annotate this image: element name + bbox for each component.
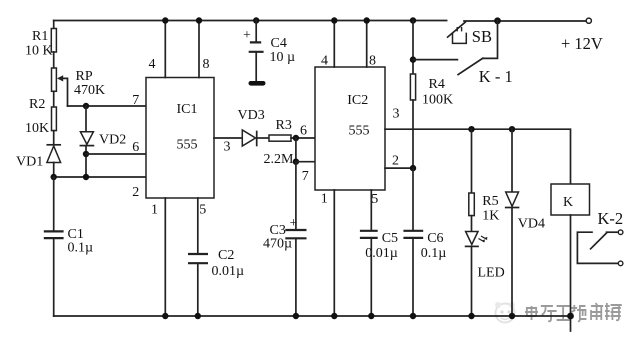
relay contact K-1 bbox=[410, 56, 513, 86]
svg-text:2: 2 bbox=[132, 185, 139, 200]
wire left rail top segment bbox=[53, 21, 55, 29]
wire IC2 pin 7 stub bbox=[296, 161, 315, 163]
wire IC2 pin 1 to ground rail bbox=[331, 190, 337, 319]
LED bbox=[466, 232, 505, 281]
svg-text:10 µ: 10 µ bbox=[270, 50, 296, 65]
svg-text:1K: 1K bbox=[482, 209, 499, 224]
wire pin7 net from RP wiper to IC1 pin 7 bbox=[68, 105, 147, 107]
svg-text:VD1: VD1 bbox=[16, 155, 43, 170]
svg-text:C2: C2 bbox=[218, 248, 234, 263]
svg-text:SB: SB bbox=[472, 27, 492, 46]
svg-text:10K: 10K bbox=[25, 121, 49, 136]
op-amp IC2 555 timer bbox=[300, 54, 400, 208]
wire R4 bottom to pin2 junction bbox=[412, 100, 414, 168]
svg-text:R4: R4 bbox=[429, 77, 445, 92]
pushbutton SB bbox=[448, 22, 492, 46]
svg-text:IC1: IC1 bbox=[177, 102, 198, 117]
svg-text:10 K: 10 K bbox=[25, 44, 53, 59]
wire IC1 pin 4 to top rail bbox=[162, 17, 168, 77]
diode VD3 bbox=[238, 108, 270, 146]
wire junction down to C3 bbox=[295, 162, 297, 230]
wire R2 to VD1 bbox=[53, 131, 55, 145]
wire K coil to ground rail and below bbox=[567, 215, 574, 331]
svg-text:0.01µ: 0.01µ bbox=[212, 264, 245, 279]
svg-text:RP: RP bbox=[76, 69, 93, 84]
svg-text:0.1µ: 0.1µ bbox=[421, 246, 447, 261]
wire C6 to ground rail bbox=[410, 238, 416, 319]
wire junction down to pin 7 net bbox=[295, 138, 297, 162]
wire IC1 pin 8 to top rail bbox=[196, 17, 202, 77]
svg-text:5: 5 bbox=[371, 192, 378, 207]
node junction SB / K-1 riser bbox=[494, 17, 501, 24]
svg-text:+ 12V: + 12V bbox=[561, 34, 603, 53]
wire IC2 pin 4 to top rail bbox=[331, 17, 337, 67]
svg-text:K-2: K-2 bbox=[598, 209, 624, 228]
wire SB to +12V terminal bbox=[464, 20, 586, 22]
svg-text:K: K bbox=[563, 195, 573, 210]
wire C3 to ground rail bbox=[293, 238, 299, 319]
svg-text:6: 6 bbox=[132, 140, 139, 155]
svg-text:2: 2 bbox=[392, 154, 399, 169]
relay contact K-2 bbox=[577, 209, 623, 266]
wire C1 to bottom rail bbox=[53, 238, 55, 316]
svg-text:K - 1: K - 1 bbox=[479, 67, 513, 86]
wire RP to R2 bbox=[53, 91, 55, 107]
resistor R5 1K bbox=[468, 126, 499, 224]
diode VD1 bbox=[16, 145, 61, 177]
svg-text:4: 4 bbox=[321, 54, 328, 69]
capacitor C1 0.1u bbox=[44, 227, 93, 256]
wire LED to ground rail bbox=[468, 246, 474, 319]
svg-text:C6: C6 bbox=[427, 231, 443, 246]
node junction pin7 net bbox=[293, 159, 299, 165]
svg-text:R2: R2 bbox=[29, 97, 45, 112]
svg-text:0.1µ: 0.1µ bbox=[68, 241, 94, 256]
svg-text:8: 8 bbox=[203, 57, 210, 72]
svg-text:VD2: VD2 bbox=[99, 133, 126, 148]
diode VD2 bbox=[80, 106, 126, 177]
capacitor C4 10u electrolytic bbox=[243, 17, 295, 65]
wire IC1 pin 5 to C2 bbox=[197, 198, 199, 254]
wire IC1 pin 3 to VD3 bbox=[214, 137, 242, 139]
node junction pin6 net bbox=[293, 135, 299, 141]
capacitor C2 0.01u bbox=[188, 248, 244, 279]
op-amp IC1 555 timer bbox=[132, 57, 230, 218]
wire VD4 to ground rail bbox=[509, 208, 515, 320]
svg-text:6: 6 bbox=[300, 124, 307, 139]
wire IC2 pin 8 to top rail bbox=[364, 17, 370, 67]
svg-text:3: 3 bbox=[224, 140, 231, 155]
svg-text:VD3: VD3 bbox=[238, 108, 265, 123]
svg-text:5: 5 bbox=[199, 203, 206, 218]
svg-text:4: 4 bbox=[149, 57, 156, 72]
svg-text:1: 1 bbox=[151, 203, 158, 218]
svg-text:470K: 470K bbox=[74, 83, 105, 98]
resistor R1 bbox=[25, 29, 56, 59]
svg-text:IC2: IC2 bbox=[347, 93, 368, 108]
terminal +12V bbox=[561, 18, 603, 53]
svg-text:7: 7 bbox=[302, 169, 309, 184]
svg-text:8: 8 bbox=[369, 54, 376, 69]
svg-text:100K: 100K bbox=[422, 93, 453, 108]
resistor R3 2.2M bbox=[264, 118, 295, 167]
wire C2 to ground rail bbox=[195, 263, 201, 319]
svg-text:R1: R1 bbox=[32, 29, 48, 44]
svg-text:C4: C4 bbox=[271, 36, 287, 51]
wire R5 to LED bbox=[471, 216, 473, 232]
svg-text:1: 1 bbox=[321, 192, 328, 207]
node junction VD2 cathode on pin 6 net bbox=[83, 151, 89, 157]
svg-text:470µ: 470µ bbox=[263, 237, 292, 252]
svg-text:R3: R3 bbox=[276, 118, 292, 133]
svg-text:2.2M: 2.2M bbox=[264, 152, 295, 167]
svg-text:555: 555 bbox=[349, 124, 370, 139]
diode VD4 bbox=[506, 126, 545, 232]
svg-text:3: 3 bbox=[393, 107, 400, 122]
node junction left rail / pin2 net bbox=[51, 174, 57, 180]
wire left rail to C1 bbox=[53, 177, 55, 231]
wire C4 to ground symbol bbox=[255, 52, 257, 82]
wire top power rail bbox=[54, 20, 447, 22]
svg-text:555: 555 bbox=[177, 138, 198, 153]
wire IC2 pin 3 output net bbox=[385, 129, 571, 184]
relay coil K bbox=[551, 184, 590, 215]
capacitor C3 470u electrolytic bbox=[263, 216, 307, 252]
resistor R2 bbox=[25, 97, 56, 136]
potentiometer RP 470K bbox=[52, 68, 106, 106]
wire IC2 pin 5 to C5 bbox=[370, 190, 372, 231]
wire K-1 riser bbox=[483, 21, 498, 59]
capacitor C6 0.1u bbox=[403, 168, 446, 261]
wire pin 2 net to IC1 bbox=[54, 176, 146, 178]
svg-text:+: + bbox=[290, 216, 298, 231]
wire R3 to IC2 pin 6 bbox=[291, 137, 315, 139]
wire bottom ground rail bbox=[54, 315, 571, 317]
svg-text:+: + bbox=[243, 28, 251, 43]
svg-text:C5: C5 bbox=[382, 231, 398, 246]
wire IC2 pin 2 stub bbox=[385, 165, 416, 171]
ground bbox=[251, 81, 263, 86]
wire R1 to RP bbox=[53, 52, 55, 68]
svg-text:R5: R5 bbox=[482, 194, 498, 209]
node junction RP wiper / VD2 anode bbox=[83, 103, 89, 109]
svg-text:7: 7 bbox=[132, 93, 139, 108]
svg-text:LED: LED bbox=[478, 266, 505, 281]
capacitor C5 0.01u bbox=[360, 231, 398, 261]
wire C5 to ground rail bbox=[368, 238, 374, 319]
resistor R4 100K bbox=[410, 17, 453, 107]
svg-text:VD4: VD4 bbox=[518, 217, 545, 232]
svg-text:0.01µ: 0.01µ bbox=[365, 246, 398, 261]
node junction VD2 bottom / pin2 net bbox=[83, 174, 89, 180]
wire IC1 pin 1 to ground rail bbox=[162, 198, 168, 319]
wire pin 6 net to IC1 bbox=[86, 153, 146, 155]
